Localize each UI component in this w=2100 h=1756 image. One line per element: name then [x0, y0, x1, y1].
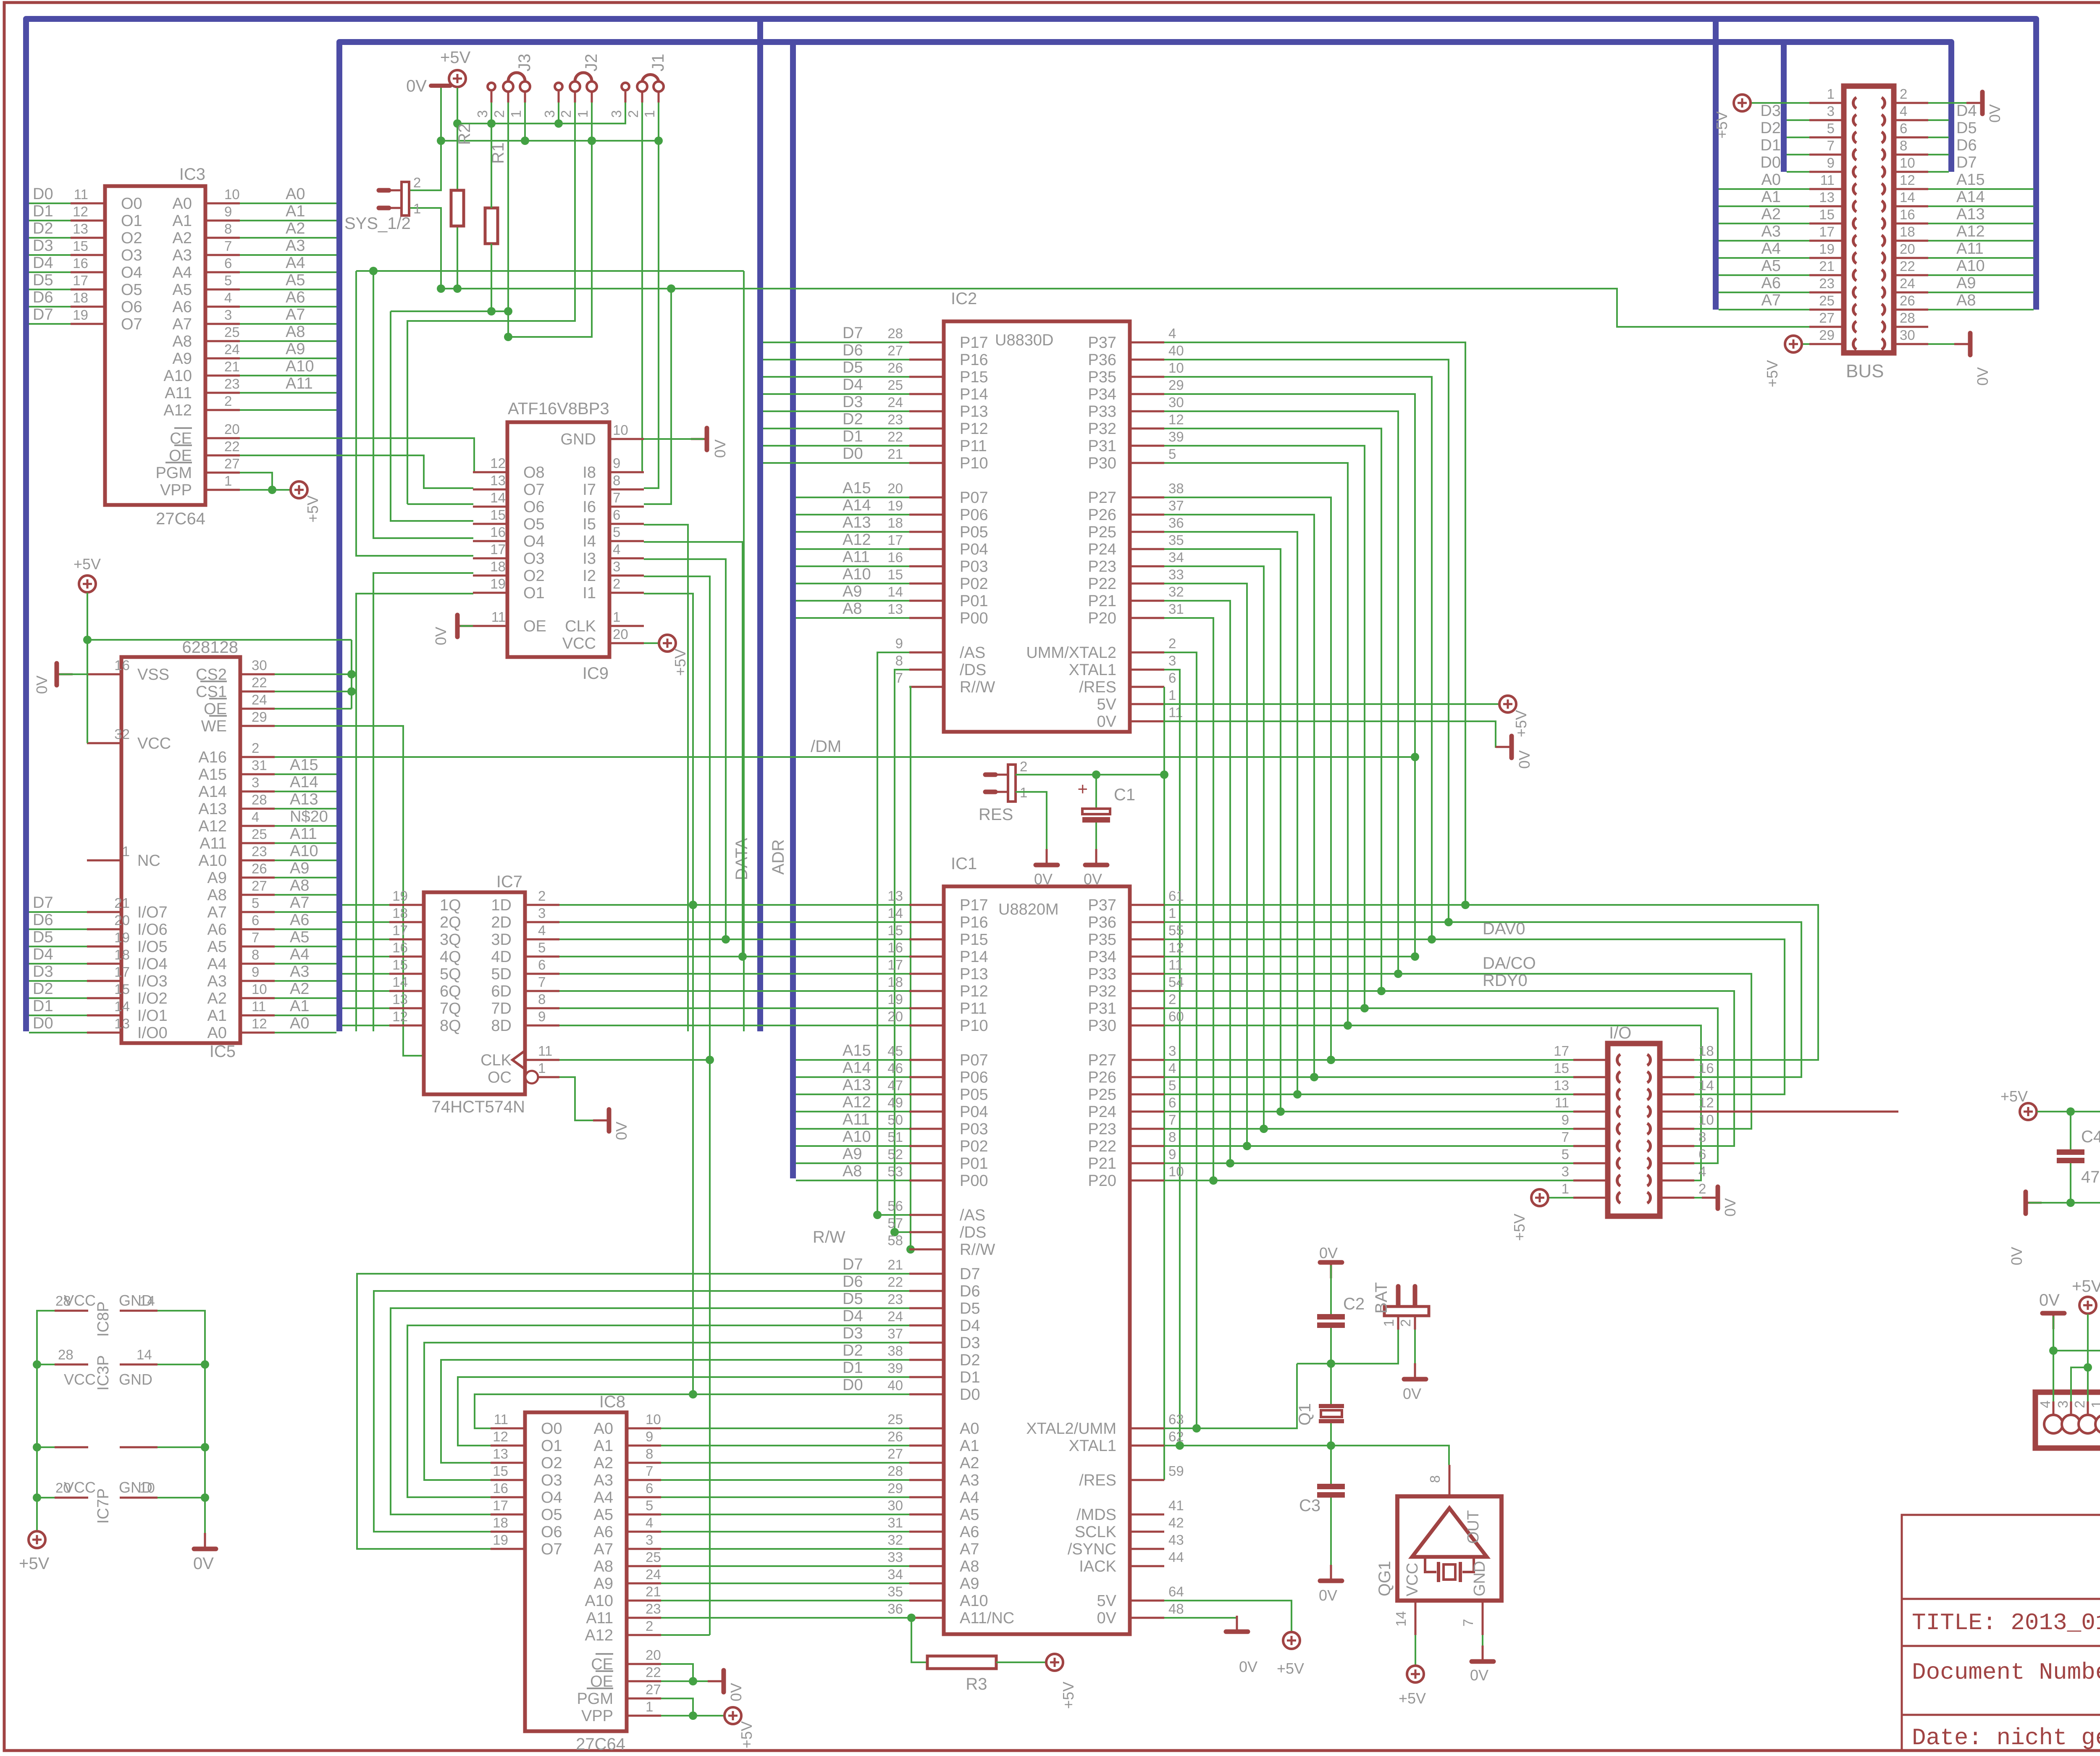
svg-text:P11: P11 — [960, 1000, 987, 1017]
0V ground at IC9 GND — [691, 428, 707, 450]
svg-text:A6: A6 — [1761, 274, 1781, 292]
svg-text:45: 45 — [887, 1043, 903, 1059]
svg-text:4: 4 — [1698, 1164, 1706, 1179]
0V ground at IC9 OE — [457, 615, 473, 637]
wire J3.3 to +5V rail — [491, 103, 492, 124]
wire IC9 VCC to +5V — [644, 642, 658, 644]
wire C1 bottom to 0V — [1095, 823, 1097, 862]
svg-text:A1: A1 — [173, 212, 192, 230]
svg-text:0V: 0V — [2039, 1291, 2060, 1309]
svg-text:O1: O1 — [523, 584, 545, 602]
svg-text:9: 9 — [646, 1429, 653, 1444]
IC7 74HCT574N latch — [389, 873, 559, 1116]
svg-text:14: 14 — [139, 1293, 155, 1309]
svg-text:P31: P31 — [1088, 1000, 1116, 1017]
svg-text:R//W: R//W — [960, 678, 995, 696]
junction — [1276, 1107, 1285, 1116]
wire IC3.A5 to bus — [240, 289, 336, 290]
svg-text:A5: A5 — [173, 281, 192, 299]
svg-text:A8: A8 — [960, 1558, 979, 1575]
svg-text:TITLE: 2013_01: TITLE: 2013_01 — [1912, 1609, 2100, 1636]
svg-text:14: 14 — [887, 905, 903, 921]
svg-text:P16: P16 — [960, 351, 988, 369]
junction — [1209, 1176, 1218, 1185]
svg-text:0V: 0V — [1239, 1658, 1257, 1675]
capacitor C3 — [1317, 1484, 1345, 1498]
svg-text:19: 19 — [1819, 241, 1835, 257]
svg-text:28: 28 — [252, 792, 267, 807]
svg-text:28: 28 — [58, 1347, 73, 1362]
svg-text:D0: D0 — [1760, 154, 1781, 171]
svg-text:56: 56 — [887, 1198, 903, 1214]
svg-text:R3: R3 — [966, 1675, 987, 1693]
svg-text:GND: GND — [119, 1371, 152, 1388]
svg-text:2: 2 — [252, 740, 259, 756]
svg-text:A0: A0 — [207, 1024, 227, 1042]
wire IC7 4Q to bus — [342, 956, 389, 957]
svg-text:3: 3 — [224, 307, 232, 323]
svg-text:UMM/XTAL2: UMM/XTAL2 — [1026, 644, 1116, 662]
svg-text:14: 14 — [490, 490, 506, 505]
svg-text:16: 16 — [114, 657, 130, 673]
svg-text:13: 13 — [490, 473, 506, 488]
svg-text:8: 8 — [1698, 1129, 1706, 1145]
svg-text:34: 34 — [1168, 549, 1184, 565]
wire P27 IC2 to IC1 column — [1164, 497, 1331, 1060]
wire I/O pin2 to 0V — [1694, 1197, 1715, 1199]
wire C1 top — [1095, 775, 1097, 809]
svg-text:7: 7 — [1827, 138, 1835, 153]
connector JP5 — [2035, 1392, 2100, 1448]
svg-text:37: 37 — [1168, 498, 1184, 513]
0V ground at C3 — [1320, 1565, 1342, 1581]
svg-text:1: 1 — [1168, 687, 1176, 703]
svg-text:A15: A15 — [1956, 171, 1985, 189]
wire P36 IC2 to IC1 column — [1164, 360, 1449, 922]
junction — [1160, 770, 1168, 779]
junction — [689, 901, 697, 909]
svg-text:12: 12 — [1698, 1095, 1714, 1110]
wire D3 bus to IC3.O3 — [29, 254, 71, 256]
wire D0 IC1 to IC8 O0 — [475, 1394, 909, 1428]
svg-text:D3: D3 — [843, 393, 863, 411]
svg-text:O5: O5 — [121, 281, 142, 299]
svg-text:14: 14 — [1900, 189, 1915, 205]
svg-text:8Q: 8Q — [440, 1017, 461, 1035]
wire D6 IC1 to IC8 O6 — [374, 1291, 909, 1532]
svg-text:XTAL1: XTAL1 — [1069, 1437, 1116, 1455]
wire IC5 A10 to bus — [275, 860, 336, 861]
svg-text:R/W: R/W — [813, 1228, 845, 1246]
wire IC3.A4 to bus — [240, 271, 336, 273]
svg-text:3: 3 — [252, 775, 259, 790]
svg-text:A5: A5 — [286, 271, 305, 289]
junction — [1428, 935, 1436, 944]
junction — [1260, 1125, 1268, 1133]
svg-text:11: 11 — [1555, 1095, 1569, 1110]
svg-text:46: 46 — [887, 1060, 903, 1076]
svg-text:A10: A10 — [843, 1128, 871, 1146]
wire BUS pin to A11 bus — [1928, 257, 2034, 259]
svg-text:13: 13 — [392, 991, 408, 1007]
wire IC3.A8 to bus — [240, 340, 336, 342]
svg-text:55: 55 — [1168, 923, 1184, 938]
+5V supply at IC2 5V pin — [1499, 696, 1516, 712]
svg-text:A0: A0 — [960, 1420, 979, 1438]
svg-text:A12: A12 — [198, 818, 227, 835]
svg-text:IC5: IC5 — [210, 1042, 236, 1061]
svg-text:3: 3 — [542, 110, 557, 118]
svg-text:A6: A6 — [286, 289, 305, 306]
svg-text:2: 2 — [1168, 636, 1176, 651]
svg-text:P20: P20 — [1088, 610, 1116, 627]
svg-text:1: 1 — [1168, 905, 1176, 921]
svg-text:A15: A15 — [198, 766, 227, 783]
wire IC9 I4 net — [644, 542, 743, 957]
svg-text:35: 35 — [1168, 532, 1184, 548]
svg-text:27C64: 27C64 — [576, 1735, 625, 1753]
svg-text:P37: P37 — [1088, 896, 1116, 914]
wire D1 bus to IC5 — [29, 1015, 87, 1016]
0V ground bar top-left — [431, 84, 450, 88]
svg-text:J2: J2 — [582, 54, 601, 71]
svg-text:10: 10 — [224, 187, 240, 202]
wire P33 IC2 to IC1 column — [1164, 411, 1398, 974]
wire QG1 GND to 0V — [1482, 1635, 1483, 1659]
junction — [2066, 1107, 2075, 1116]
svg-text:+5V: +5V — [19, 1554, 50, 1573]
svg-text:A11: A11 — [1956, 240, 1984, 258]
svg-text:12: 12 — [490, 455, 506, 471]
svg-text:D6: D6 — [33, 911, 53, 929]
svg-text:2: 2 — [1900, 86, 1907, 102]
svg-text:5: 5 — [252, 895, 259, 911]
svg-text:0V: 0V — [432, 627, 449, 645]
svg-text:P12: P12 — [960, 420, 988, 438]
svg-text:D3: D3 — [33, 237, 53, 255]
svg-text:21: 21 — [114, 895, 130, 911]
svg-text:30: 30 — [887, 1498, 903, 1513]
0V ground at IC7 OC — [593, 1109, 609, 1131]
wire Q1 to XTAL1 net — [1330, 1423, 1332, 1446]
svg-text:15: 15 — [114, 981, 130, 997]
wire A9 ADR bus to IC1 — [796, 1162, 909, 1164]
svg-text:8: 8 — [613, 473, 620, 488]
svg-text:P00: P00 — [960, 610, 988, 627]
wire +5V rail to CS pins — [87, 639, 352, 641]
svg-text:2: 2 — [1398, 1319, 1413, 1327]
svg-text:16: 16 — [887, 940, 903, 955]
svg-text:20: 20 — [224, 421, 240, 437]
svg-text:57: 57 — [887, 1215, 903, 1231]
svg-text:I/O: I/O — [1609, 1024, 1631, 1042]
wire A12 ADR bus to IC2 — [796, 548, 909, 550]
svg-text:10: 10 — [1168, 360, 1184, 376]
svg-text:5: 5 — [1168, 1078, 1176, 1093]
svg-text:IC3: IC3 — [179, 165, 205, 184]
wire IC2 0V to ground — [1164, 721, 1509, 747]
svg-text:1: 1 — [1381, 1319, 1396, 1327]
junction — [369, 267, 378, 275]
svg-text:D2: D2 — [33, 980, 53, 998]
wire P37 IC2 to IC1 column — [1164, 342, 1465, 905]
svg-text:+5V: +5V — [738, 1721, 755, 1748]
svg-text:14: 14 — [1393, 1611, 1409, 1627]
svg-text:O7: O7 — [523, 481, 545, 499]
wire D4 bus to IC3.O4 — [29, 271, 71, 273]
svg-text:16: 16 — [392, 940, 408, 955]
junction — [504, 333, 512, 341]
wire IC5 A14 to bus — [275, 791, 336, 792]
wire +5V to JP5 pin3 — [2071, 1367, 2088, 1401]
svg-text:A0: A0 — [173, 195, 192, 213]
svg-text:P36: P36 — [1088, 914, 1116, 931]
svg-text:11: 11 — [1168, 705, 1183, 720]
wire IC5 A2 to bus — [275, 997, 336, 999]
svg-text:13: 13 — [887, 888, 903, 904]
svg-text:14: 14 — [136, 1347, 152, 1362]
svg-text:P27: P27 — [1088, 1051, 1116, 1069]
svg-text:31: 31 — [1168, 601, 1184, 617]
wire BUS pin to A14 bus — [1928, 205, 2034, 207]
svg-text:O5: O5 — [523, 515, 545, 533]
0V ground at IC2 0V pin — [1496, 736, 1512, 758]
svg-text:22: 22 — [252, 675, 267, 690]
svg-text:A2: A2 — [594, 1454, 613, 1472]
svg-text:26: 26 — [887, 1429, 903, 1444]
svg-text:PGM: PGM — [155, 464, 192, 482]
svg-text:A12: A12 — [843, 531, 871, 549]
svg-text:16: 16 — [493, 1480, 508, 1496]
wire IC7 6Q to bus — [342, 990, 389, 992]
svg-text:7: 7 — [538, 974, 546, 990]
svg-text:P02: P02 — [960, 1138, 988, 1155]
wire IC3 CE to IC9 O8 — [240, 438, 474, 472]
wire IC3.A11 to bus — [240, 392, 336, 394]
svg-text:2: 2 — [1020, 759, 1027, 774]
svg-text:+5V: +5V — [73, 555, 101, 573]
wire +5V to I/O pin1 — [1549, 1197, 1573, 1199]
svg-text:IC2: IC2 — [951, 289, 977, 308]
wire J3.3 vertical — [491, 103, 492, 124]
0V ground above C2 — [1320, 1262, 1342, 1278]
wire IC3 OE to IC9 O7 — [240, 455, 473, 488]
svg-text:27: 27 — [646, 1682, 661, 1697]
svg-text:O0: O0 — [121, 195, 142, 213]
junction — [1444, 918, 1453, 926]
svg-text:27: 27 — [224, 456, 240, 471]
svg-text:16: 16 — [490, 524, 506, 540]
wire R//W IC2 to IC1 — [909, 687, 911, 1249]
wire D5 bus to IC3.O5 — [29, 289, 71, 290]
wire branch IC3P VCC — [37, 1364, 55, 1365]
svg-text:IC8P: IC8P — [94, 1301, 112, 1337]
wire IC9 I1 net vertical — [644, 594, 693, 1394]
svg-text:25: 25 — [224, 324, 240, 340]
wire IC5 A8 to bus — [275, 894, 336, 896]
svg-text:36: 36 — [887, 1601, 903, 1617]
wire IC5 A7 to bus — [275, 911, 336, 913]
wire P22 IC1 to I/O connector — [1164, 1145, 1573, 1147]
wire P21 IC1 to I/O connector — [1164, 1162, 1573, 1164]
svg-text:12: 12 — [493, 1429, 508, 1444]
svg-text:3: 3 — [1168, 1043, 1176, 1059]
wire C2/Q1/BAT junction net — [1297, 1330, 1398, 1364]
svg-text:OUT: OUT — [1465, 1510, 1482, 1544]
svg-text:A8: A8 — [843, 600, 862, 618]
wire IC7 7Q to bus — [342, 1007, 389, 1009]
svg-text:A7: A7 — [286, 306, 305, 323]
wire IC9 O4 net — [373, 271, 473, 538]
svg-text:P30: P30 — [1088, 1017, 1116, 1035]
svg-text:I/O3: I/O3 — [137, 973, 168, 990]
svg-text:A10: A10 — [163, 367, 192, 385]
wire +5V to R2 — [457, 88, 458, 190]
svg-text:P32: P32 — [1088, 983, 1116, 1000]
wire IC3.A2 to bus — [240, 237, 336, 239]
junction — [1394, 970, 1402, 978]
wire A11 IC8 to IC1 — [661, 1617, 909, 1619]
wire A4 bus to BUS pin — [1719, 257, 1809, 259]
0V ground at power pins — [194, 1533, 216, 1549]
svg-text:22: 22 — [646, 1664, 661, 1680]
wire IC3.A7 to bus — [240, 323, 336, 325]
svg-text:A4: A4 — [286, 254, 305, 272]
svg-text:C3: C3 — [1299, 1496, 1320, 1515]
svg-text:/DS: /DS — [960, 661, 986, 679]
svg-text:61: 61 — [1168, 888, 1184, 904]
wire 0V to SYS pin2 — [410, 88, 441, 190]
connector BUS — [1809, 86, 1928, 353]
svg-text:D7: D7 — [960, 1265, 980, 1283]
svg-text:A0: A0 — [286, 185, 305, 203]
wire IC7 3Q to bus — [342, 938, 389, 940]
wire IC5 CS2 — [275, 673, 352, 675]
capacitor C4 — [2057, 1149, 2084, 1163]
+5V supply at cap bank — [2020, 1103, 2037, 1120]
junction — [906, 1245, 915, 1254]
svg-text:/RES: /RES — [1079, 678, 1116, 696]
svg-text:O0: O0 — [541, 1420, 562, 1438]
svg-text:A15: A15 — [843, 479, 871, 497]
wire D2 bus to BUS pin — [1787, 137, 1809, 138]
svg-text:7: 7 — [1562, 1129, 1569, 1145]
svg-text:7Q: 7Q — [440, 1000, 461, 1017]
svg-text:9: 9 — [1827, 155, 1835, 171]
wire D0 bus to IC5 — [29, 1032, 87, 1033]
svg-text:A9: A9 — [286, 340, 305, 358]
svg-text:P22: P22 — [1088, 1138, 1116, 1155]
wire D2 bus to IC3.O2 — [29, 237, 71, 239]
wire IC3.A0 to bus — [240, 202, 336, 204]
svg-text:6: 6 — [1698, 1146, 1706, 1162]
svg-text:A11: A11 — [286, 375, 313, 392]
+5V supply at JP5 — [2079, 1297, 2096, 1314]
svg-text:28: 28 — [887, 1463, 903, 1479]
wire R1 net horizontal — [391, 310, 508, 312]
svg-text:18: 18 — [73, 290, 88, 305]
svg-text:A7: A7 — [173, 315, 192, 333]
svg-text:A11: A11 — [199, 835, 227, 852]
svg-text:1: 1 — [2089, 1401, 2100, 1408]
svg-text:VPP: VPP — [581, 1707, 613, 1725]
svg-text:10: 10 — [1900, 155, 1915, 171]
0V ground at BAT — [1404, 1363, 1426, 1379]
svg-text:16: 16 — [1698, 1060, 1714, 1076]
svg-text:60: 60 — [1168, 1009, 1184, 1024]
svg-text:22: 22 — [1900, 258, 1915, 274]
0V ground at BUS pin30 — [1954, 333, 1970, 355]
svg-text:17: 17 — [73, 273, 88, 288]
wire A7 bus to BUS pin — [1719, 309, 1809, 310]
wire IC8 VPP to +5V — [661, 1715, 724, 1717]
junction — [347, 670, 356, 678]
wire QG1 VCC to +5V — [1415, 1635, 1416, 1665]
svg-text:A11: A11 — [165, 384, 192, 402]
svg-text:A10: A10 — [1956, 257, 1985, 275]
wire J3.1 to 0V rail — [524, 103, 526, 141]
svg-text:10: 10 — [613, 422, 628, 438]
wire XTAL1 net to C3 — [1330, 1446, 1332, 1484]
svg-text:A12: A12 — [163, 402, 192, 419]
svg-text:2: 2 — [558, 110, 574, 118]
svg-text:13: 13 — [493, 1446, 508, 1462]
svg-text:+: + — [1077, 779, 1088, 799]
wire P26 IC2 to IC1 column — [1164, 515, 1314, 1077]
0V ground at IC8 OE — [708, 1670, 724, 1692]
wire /DS IC2 to IC1 — [895, 670, 909, 1232]
connector SYS_1/2 — [379, 182, 409, 216]
svg-text:4: 4 — [252, 809, 259, 825]
+5V supply at IC5 VCC — [79, 576, 96, 592]
svg-text:A10: A10 — [286, 358, 314, 375]
svg-text:D2: D2 — [1760, 119, 1781, 137]
svg-text:I7: I7 — [583, 481, 596, 499]
wire branch IC7P VCC — [37, 1497, 55, 1498]
svg-text:D3: D3 — [960, 1334, 980, 1352]
wire IC9 I7 to J1.1 net — [644, 103, 659, 488]
wire D7 IC1 to IC8 O7 — [357, 1274, 909, 1549]
svg-text:0V: 0V — [727, 1683, 745, 1701]
wire branch spare VCC — [37, 1446, 55, 1448]
junction — [268, 486, 276, 494]
resistor R3 — [927, 1656, 996, 1669]
wire IC9 I2 net to CLK column — [644, 576, 710, 1060]
svg-text:30: 30 — [1168, 394, 1184, 410]
svg-text:+5V: +5V — [440, 48, 471, 67]
svg-text:39: 39 — [1168, 429, 1184, 444]
svg-text:33: 33 — [1168, 567, 1184, 582]
0V ground at cap bank — [2026, 1192, 2042, 1214]
svg-text:D1: D1 — [33, 997, 53, 1015]
junction — [1344, 1021, 1352, 1030]
wire A15 ADR bus to IC1 — [796, 1059, 909, 1061]
svg-text:D5: D5 — [1956, 119, 1977, 137]
svg-text:R//W: R//W — [960, 1241, 995, 1259]
svg-text:A5: A5 — [594, 1506, 613, 1524]
svg-text:D4: D4 — [843, 1307, 863, 1325]
svg-text:A7: A7 — [207, 904, 227, 921]
svg-text:P15: P15 — [960, 368, 988, 386]
svg-text:6: 6 — [1900, 121, 1907, 136]
svg-text:P34: P34 — [1088, 948, 1116, 966]
svg-text:4: 4 — [2037, 1401, 2053, 1408]
svg-text:49: 49 — [887, 1095, 903, 1110]
svg-text:2: 2 — [2072, 1401, 2087, 1408]
svg-text:0V: 0V — [1097, 713, 1117, 731]
svg-text:6: 6 — [538, 957, 546, 973]
svg-text:U8820M: U8820M — [998, 901, 1059, 918]
